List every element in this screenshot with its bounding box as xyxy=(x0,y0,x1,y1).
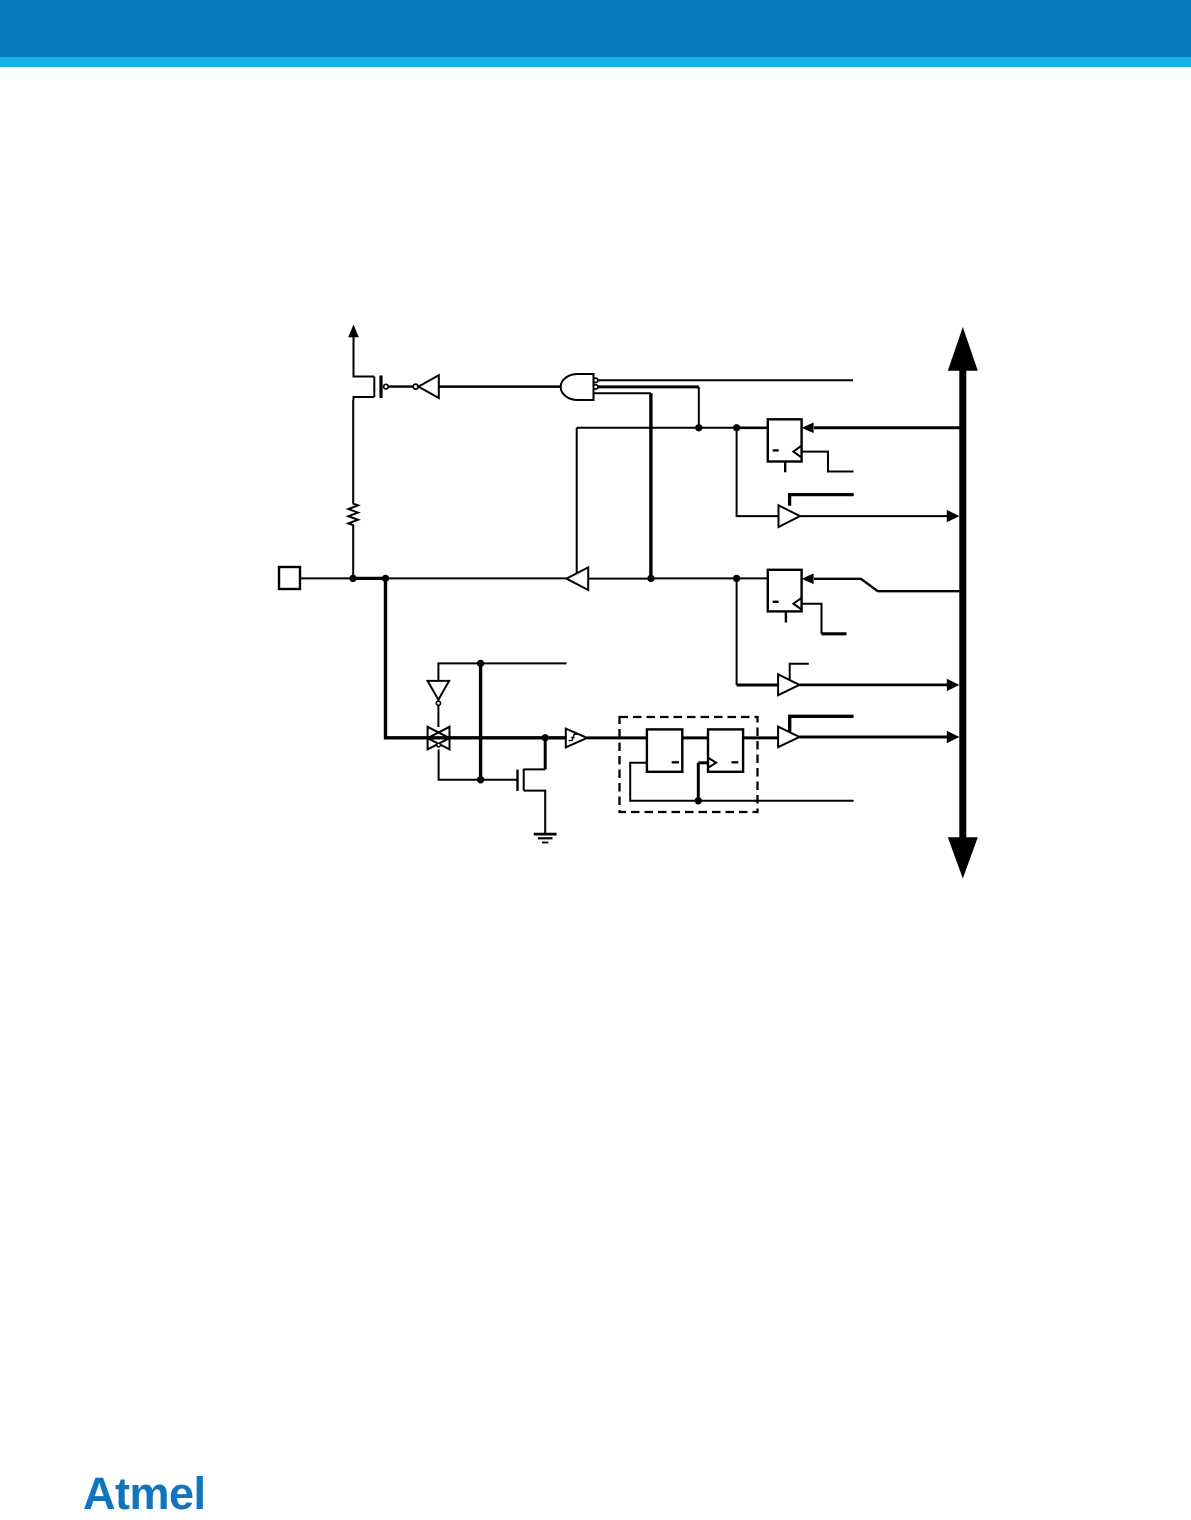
wire DDxn Q row xyxy=(577,427,737,429)
latch L2 xyxy=(708,729,743,771)
VCC supply arrow xyxy=(348,325,359,378)
inverter sleep (points down) xyxy=(428,681,450,705)
node driver input junction xyxy=(647,575,654,582)
ground xyxy=(534,834,557,842)
schmitt trigger buffer xyxy=(566,729,587,748)
wire RDx output to bus xyxy=(800,510,959,522)
pull-up PMOS transistor xyxy=(354,375,389,400)
wire DDxn to RDx buffer xyxy=(737,428,779,516)
pad Pxn xyxy=(279,567,300,589)
AND gate (mirrored, pull-up enable) xyxy=(561,374,598,400)
transistor Q2 NMOS xyxy=(518,738,546,834)
transmission gate xyxy=(428,727,450,750)
wire PORTxn row to flip-flop xyxy=(651,577,768,579)
wire latch1 clock feedback xyxy=(630,763,854,801)
header light cyan strip xyxy=(0,57,1191,67)
wire pad row to output driver xyxy=(386,577,567,579)
node SLEEP junction xyxy=(477,660,484,667)
wire PORTxn to RRx buffer xyxy=(737,578,779,685)
node NMOS drain junction xyxy=(542,734,549,741)
D flip-flop PORTxn xyxy=(768,570,802,623)
wire RRx enable xyxy=(790,664,809,680)
node DDxn row junction 1 xyxy=(695,424,702,431)
synchronizer dashed box xyxy=(620,717,758,812)
wire RDx enable xyxy=(790,495,854,506)
data bus xyxy=(948,327,978,879)
wire SLEEP down to NMOS gate row xyxy=(479,663,482,779)
node PORTxn row junction xyxy=(733,575,740,582)
wire inverter to AND gate output xyxy=(439,385,561,388)
inverter U1 (pull-up control) xyxy=(413,375,439,398)
Atmel logo xyxy=(83,1468,206,1520)
wire WDx clock xyxy=(802,452,854,472)
output driver tri-state buffer xyxy=(567,428,589,590)
pull-up resistor xyxy=(348,400,358,578)
header dark blue bar xyxy=(0,0,1191,57)
node DDxn row junction 2 xyxy=(733,424,740,431)
wire latch1 to latch2 xyxy=(682,736,708,739)
wire PINxn output to bus xyxy=(800,731,960,743)
wire PUD line xyxy=(598,379,853,381)
wire pad branch down to input circuit xyxy=(386,578,428,737)
wire schmitt output to synchronizer xyxy=(587,736,647,739)
wire driver input from node xyxy=(588,578,651,580)
wire RPx enable xyxy=(790,716,854,731)
wire latch2 clock xyxy=(698,763,708,801)
node pad junction 2 xyxy=(382,575,389,582)
wire sleep inverter to transmission gate xyxy=(437,706,439,727)
wire DDxn D input from data bus xyxy=(802,423,961,434)
wire pad to node xyxy=(300,577,353,579)
wire RRx output to bus xyxy=(800,679,960,691)
tri-state buffer RRx xyxy=(778,674,799,695)
tri-state buffer RDx xyxy=(779,505,801,527)
wire SLEEP line xyxy=(438,663,566,681)
D flip-flop DDxn xyxy=(768,419,802,472)
wire AND third input down to pad row xyxy=(594,393,651,578)
wire transmission gate bottom control xyxy=(439,749,517,779)
node NMOS gate row junction xyxy=(477,776,484,783)
node pad junction 1 xyxy=(349,575,356,582)
tri-state buffer PINxn xyxy=(778,727,799,748)
wire AND middle input to DDxn row xyxy=(598,387,699,428)
wire WRx clock xyxy=(802,604,847,634)
wire synchronizer output to PINxn buffer xyxy=(743,736,778,739)
latch L1 xyxy=(647,729,682,771)
wire PORTxn D input from data bus with jog xyxy=(802,574,961,592)
node clk junction xyxy=(695,797,702,804)
wire PMOS gate to inverter xyxy=(388,385,413,387)
main row pad circuit (thick) xyxy=(428,736,566,739)
wire pad node thick segment xyxy=(353,577,386,580)
